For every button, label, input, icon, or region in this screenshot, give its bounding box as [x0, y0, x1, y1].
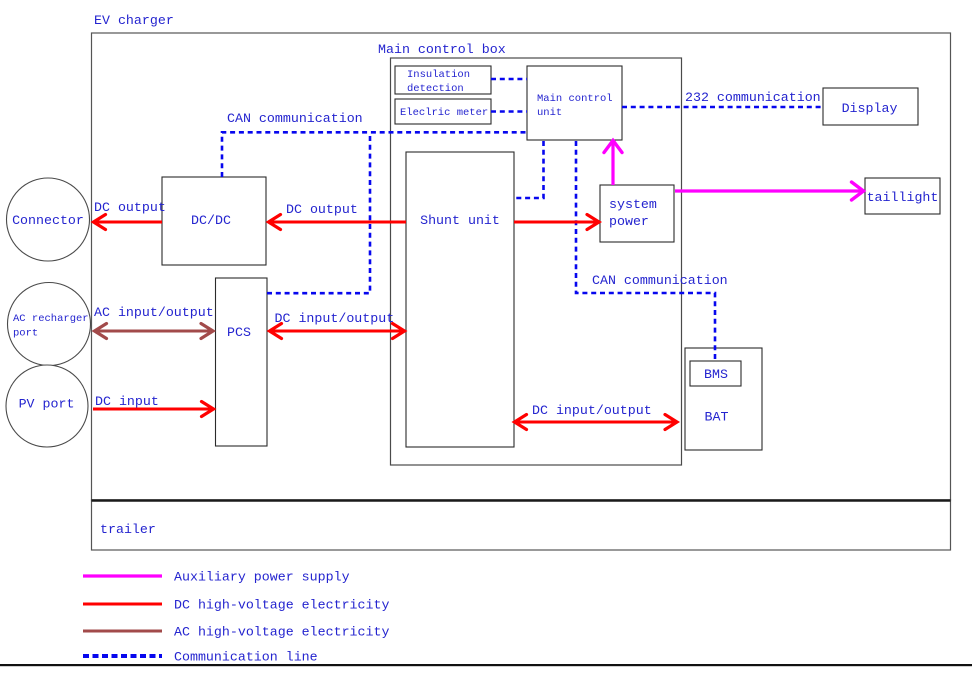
svg-text:Eleclric meter: Eleclric meter [400, 107, 488, 119]
svg-text:DC input/output: DC input/output [275, 311, 395, 326]
svg-text:DC output: DC output [94, 200, 166, 215]
svg-text:taillight: taillight [867, 190, 939, 205]
svg-text:port: port [13, 328, 38, 340]
svg-text:PV port: PV port [19, 397, 75, 412]
svg-text:DC input: DC input [95, 394, 159, 409]
svg-text:BAT: BAT [705, 410, 729, 425]
svg-text:Insulation: Insulation [407, 69, 470, 81]
svg-text:DC/DC: DC/DC [191, 213, 231, 228]
svg-text:Auxiliary power supply: Auxiliary power supply [174, 570, 350, 585]
svg-text:Shunt unit: Shunt unit [420, 213, 500, 228]
svg-text:DC input/output: DC input/output [532, 403, 652, 418]
svg-text:trailer: trailer [100, 522, 156, 537]
svg-text:AC high-voltage electricity: AC high-voltage electricity [174, 625, 389, 640]
svg-text:Display: Display [842, 101, 898, 116]
svg-text:system: system [609, 197, 657, 212]
svg-text:AC recharger: AC recharger [13, 313, 89, 325]
svg-text:Communication line: Communication line [174, 650, 318, 665]
svg-text:CAN communication: CAN communication [592, 273, 728, 288]
svg-text:BMS: BMS [704, 367, 728, 382]
svg-text:power: power [609, 214, 649, 229]
svg-text:Connector: Connector [12, 213, 84, 228]
svg-text:AC input/output: AC input/output [94, 305, 214, 320]
svg-text:CAN communication: CAN communication [227, 111, 363, 126]
svg-text:PCS: PCS [227, 325, 251, 340]
svg-text:232 communication: 232 communication [685, 90, 821, 105]
svg-text:unit: unit [537, 107, 562, 119]
svg-text:Main control: Main control [537, 93, 613, 105]
svg-text:EV charger: EV charger [94, 13, 174, 28]
svg-text:Main control box: Main control box [378, 42, 506, 57]
svg-text:DC high-voltage electricity: DC high-voltage electricity [174, 598, 389, 613]
svg-text:DC output: DC output [286, 202, 358, 217]
svg-text:detection: detection [407, 83, 464, 95]
